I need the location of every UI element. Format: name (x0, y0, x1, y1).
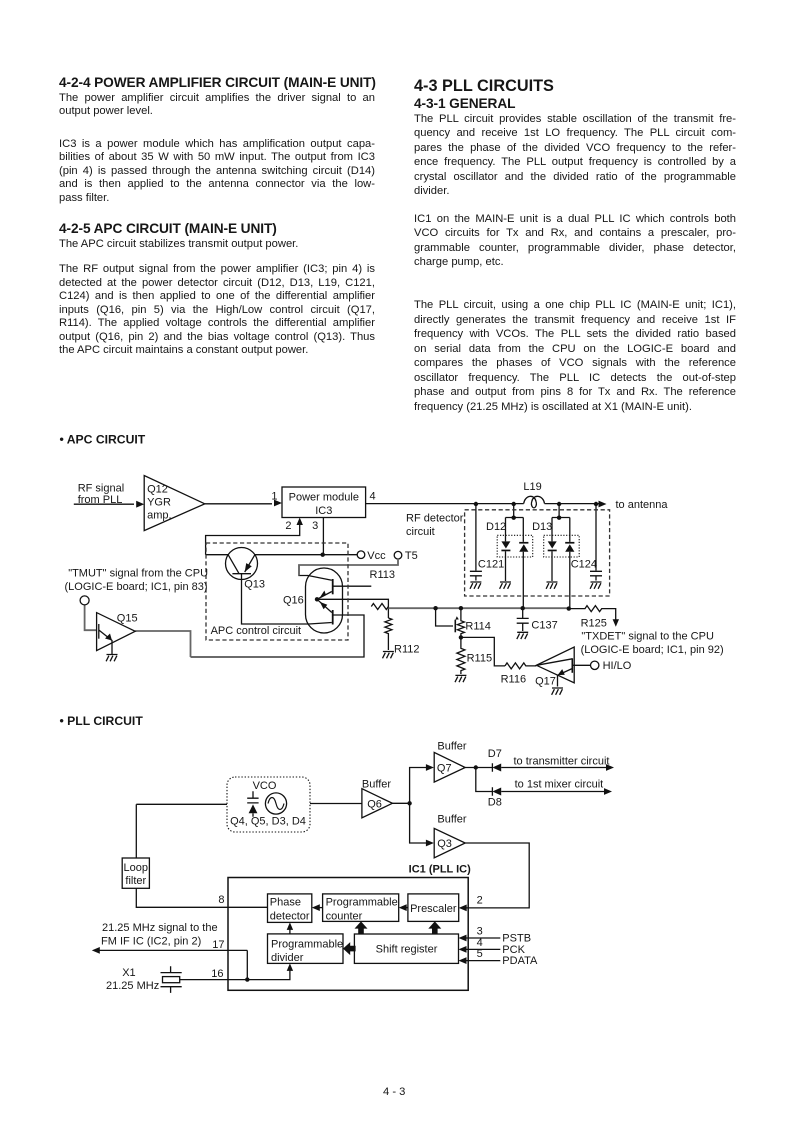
svg-text:Programmable: Programmable (271, 938, 343, 950)
svg-text:R112: R112 (394, 644, 419, 656)
svg-text:Q6: Q6 (367, 798, 382, 810)
svg-text:• PLL CIRCUIT: • PLL CIRCUIT (60, 714, 144, 728)
svg-text:YGR: YGR (147, 497, 171, 509)
svg-text:D13: D13 (532, 521, 552, 533)
svg-text:17: 17 (212, 939, 224, 951)
svg-text:C124: C124 (571, 559, 597, 571)
svg-text:APC control circuit: APC control circuit (211, 625, 301, 637)
svg-text:(LOGIC-E board; IC1, pin 83): (LOGIC-E board; IC1, pin 83) (65, 581, 208, 593)
svg-text:to antenna: to antenna (616, 499, 669, 511)
svg-text:R113: R113 (370, 569, 395, 581)
svg-text:"TXDET" signal to the CPU: "TXDET" signal to the CPU (581, 630, 714, 642)
svg-text:IC1 (PLL IC): IC1 (PLL IC) (409, 863, 471, 875)
svg-text:Buffer: Buffer (437, 814, 466, 826)
svg-text:Q15: Q15 (117, 613, 138, 625)
svg-text:5: 5 (477, 948, 483, 960)
svg-text:X1: X1 (122, 967, 135, 979)
svg-text:Q16: Q16 (283, 594, 304, 606)
svg-text:filter: filter (125, 875, 146, 887)
svg-text:Prescaler: Prescaler (410, 903, 457, 915)
svg-text:1: 1 (271, 490, 277, 502)
svg-text:Loop: Loop (124, 862, 148, 874)
svg-text:from PLL: from PLL (78, 494, 123, 506)
svg-text:to 1st mixer circuit: to 1st mixer circuit (515, 779, 604, 791)
svg-text:divider: divider (271, 952, 304, 964)
svg-text:counter: counter (326, 910, 363, 922)
svg-text:R114: R114 (465, 621, 490, 633)
svg-text:4: 4 (370, 490, 376, 502)
svg-text:PDATA: PDATA (502, 955, 538, 967)
svg-text:Q17: Q17 (535, 676, 556, 688)
svg-text:Programmable: Programmable (326, 896, 398, 908)
svg-text:Q12: Q12 (147, 484, 168, 496)
svg-text:R125: R125 (581, 617, 607, 629)
svg-text:amp.: amp. (147, 510, 171, 522)
svg-text:Power module: Power module (289, 491, 359, 503)
svg-text:3: 3 (477, 925, 483, 937)
svg-text:21.25 MHz: 21.25 MHz (106, 980, 159, 992)
svg-text:D12: D12 (486, 521, 506, 533)
svg-text:FM IF IC (IC2, pin 2): FM IF IC (IC2, pin 2) (101, 936, 201, 948)
svg-text:Phase: Phase (270, 896, 301, 908)
svg-text:Q13: Q13 (244, 579, 265, 591)
svg-text:RF detector: RF detector (406, 513, 464, 525)
svg-text:IC3: IC3 (315, 505, 332, 517)
svg-text:T5: T5 (405, 550, 418, 562)
svg-text:4: 4 (477, 937, 483, 949)
svg-text:detector: detector (270, 910, 310, 922)
svg-text:• APC CIRCUIT: • APC CIRCUIT (60, 433, 146, 447)
svg-text:R115: R115 (467, 653, 492, 665)
svg-text:2: 2 (477, 895, 483, 907)
svg-text:Buffer: Buffer (437, 740, 466, 752)
svg-text:VCO: VCO (253, 780, 277, 792)
svg-text:PCK: PCK (502, 944, 525, 956)
svg-text:RF signal: RF signal (78, 483, 124, 495)
svg-text:Shift register: Shift register (376, 944, 438, 956)
svg-text:C137: C137 (531, 619, 557, 631)
svg-text:(LOGIC-E board; IC1, pin 92): (LOGIC-E board; IC1, pin 92) (581, 644, 724, 656)
svg-text:Vcc: Vcc (367, 550, 386, 562)
svg-text:C121: C121 (478, 559, 504, 571)
svg-text:D7: D7 (488, 748, 502, 760)
svg-text:3: 3 (312, 520, 318, 532)
svg-text:D8: D8 (488, 797, 502, 809)
svg-text:R116: R116 (501, 674, 526, 686)
svg-text:to transmitter circuit: to transmitter circuit (514, 755, 610, 767)
svg-text:L19: L19 (523, 481, 541, 493)
svg-text:"TMUT" signal from the CPU: "TMUT" signal from the CPU (68, 568, 208, 580)
svg-text:Buffer: Buffer (362, 779, 391, 791)
svg-text:Q3: Q3 (437, 838, 452, 850)
svg-text:circuit: circuit (406, 526, 435, 538)
svg-text:HI/LO: HI/LO (603, 660, 632, 672)
svg-text:2: 2 (285, 520, 291, 532)
svg-text:8: 8 (218, 894, 224, 906)
svg-text:Q4, Q5, D3, D4: Q4, Q5, D3, D4 (230, 816, 306, 828)
svg-text:16: 16 (211, 968, 223, 980)
svg-text:21.25 MHz signal to the: 21.25 MHz signal to the (102, 922, 218, 934)
svg-text:Q7: Q7 (437, 763, 452, 775)
svg-text:PSTB: PSTB (502, 933, 531, 945)
